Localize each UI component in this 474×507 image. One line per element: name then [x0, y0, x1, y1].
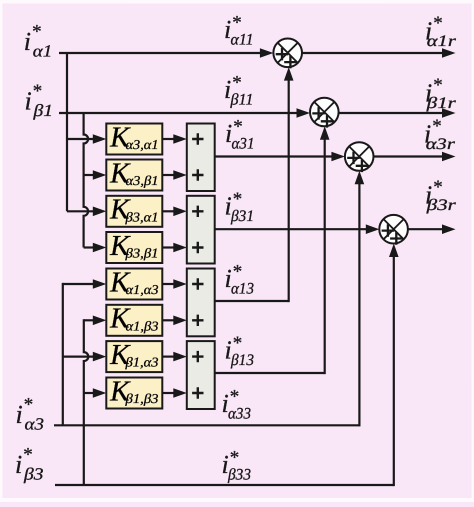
gain block K_β3,α1 (K3): [106, 194, 162, 227]
node label i*_b3r: [425, 177, 457, 214]
wire i*_a3 input line: [54, 424, 359, 426]
svg-text:*: *: [232, 73, 242, 94]
svg-text:*: *: [32, 22, 42, 43]
svg-text:i: i: [15, 450, 22, 479]
adder box A3 (outputs i*_a13): [187, 269, 215, 337]
svg-text:α1,β3: α1,β3: [126, 318, 159, 333]
wire vertical alpha3 feed (x=62.8): [62, 283, 64, 425]
svg-text:*: *: [433, 75, 443, 96]
node label i*_b13: [225, 333, 255, 369]
node label i*_a31: [225, 117, 255, 153]
svg-text:α31: α31: [232, 136, 255, 153]
node label i*_b31: [225, 189, 255, 225]
gain block K_β1,α3 (K7): [106, 339, 162, 372]
svg-text:β33: β33: [227, 466, 251, 483]
svg-text:*: *: [233, 262, 243, 283]
svg-text:β13: β13: [230, 352, 254, 369]
wire i*_a1 input line into summer U1: [59, 52, 261, 54]
wire K block row1 output into adder: [162, 138, 175, 140]
svg-text:*: *: [233, 117, 243, 138]
wire i*_b33 vertical up into summer U4: [393, 256, 395, 487]
svg-text:α11: α11: [231, 31, 254, 48]
wire vertical beta3 feed with jump (x=83.8): [84, 319, 89, 485]
svg-text:*: *: [433, 13, 443, 34]
wire i*_b1r output line with arrow: [339, 112, 444, 114]
svg-text:α13: α13: [231, 281, 254, 298]
wire i*_b3r output line with arrow: [408, 228, 444, 230]
svg-text:β1r: β1r: [425, 95, 456, 112]
svg-text:β1: β1: [32, 101, 53, 120]
wire alpha1 corner into K block row3: [67, 210, 94, 212]
node label i*_a11: [224, 12, 254, 48]
svg-text:α3,β1: α3,β1: [126, 173, 159, 188]
svg-text:β1,α3: β1,α3: [124, 355, 158, 370]
wire alpha1 branch into K block row1: [67, 138, 94, 140]
svg-text:*: *: [24, 395, 34, 416]
svg-text:α1r: α1r: [427, 33, 457, 50]
svg-text:α33: α33: [228, 406, 251, 423]
wire i*_a13 vertical up into summer U1: [288, 79, 290, 302]
svg-text:β1,β3: β1,β3: [124, 391, 158, 406]
node label i*_a1r: [425, 13, 457, 50]
svg-text:β11: β11: [229, 92, 253, 109]
wire vertical beta1 feed with jumps (x=83.6): [84, 113, 89, 248]
node label i*_b33: [222, 447, 252, 483]
svg-text:*: *: [23, 445, 33, 466]
wire i*_a3r output line with arrow: [374, 155, 444, 157]
svg-text:*: *: [230, 387, 240, 408]
wire i*_a33 vertical up into summer U3: [358, 183, 360, 427]
wire i*_a31 line from adder box to summer U3: [215, 155, 333, 157]
gain block K_α1,α3 (K5): [106, 266, 162, 299]
wire K block row3 output into adder: [162, 210, 175, 212]
wire i*_b13 vertical up into summer U2: [324, 138, 326, 374]
wire i*_b3 input line: [55, 484, 394, 486]
node label i*_b3: [15, 445, 44, 484]
wire K block row7 output into adder: [162, 356, 175, 358]
wire vertical alpha1 feed (x=67): [66, 53, 68, 211]
svg-text:*: *: [232, 12, 242, 33]
node label i*_b1r: [425, 75, 457, 112]
node label i*_b1: [25, 81, 54, 120]
gain block K_α3,β1 (K2): [106, 157, 162, 190]
wire beta1 corner into K block row4: [84, 246, 95, 248]
svg-text:*: *: [433, 177, 443, 198]
svg-text:α1: α1: [33, 42, 53, 61]
gain block K_α1,β3 (K6): [106, 303, 162, 336]
wire i*_b1 input line into summer U2: [59, 112, 298, 114]
wire i*_a1r output line with arrow: [302, 52, 444, 54]
svg-text:i: i: [16, 400, 23, 429]
adder box A1 (outputs i*_a31): [187, 124, 215, 192]
adder box A4 (outputs i*_b13): [187, 341, 215, 409]
wire K block row5 output into adder: [162, 283, 175, 285]
gain block K_α3,α1 (K1): [106, 121, 162, 154]
summer U4 (i*_b31 + i*_b33): [379, 215, 408, 245]
svg-text:*: *: [432, 116, 442, 137]
svg-text:*: *: [33, 81, 43, 102]
svg-text:i: i: [24, 27, 31, 56]
summer U1 (i*_a11 + i*_a13): [273, 39, 302, 69]
node label i*_a3r: [424, 116, 456, 153]
svg-text:β3: β3: [23, 465, 44, 484]
summer U2 (i*_b11 + i*_b13): [310, 98, 339, 128]
wire beta3 branch into K block row8: [84, 392, 95, 394]
wire beta1 branch into K block row2: [84, 174, 95, 176]
wire i*_b31 line from adder box to summer U4: [215, 228, 368, 230]
adder box A2 (outputs i*_b31): [187, 196, 215, 264]
wire i*_a13 line from adder box 3: [215, 300, 289, 302]
svg-text:*: *: [233, 333, 243, 354]
wire alpha3 branch into K block row7: [63, 356, 95, 358]
wire alpha3 corner into K block row5: [63, 283, 95, 285]
summer U3 (i*_a31 + i*_a33): [345, 142, 374, 172]
wire K block row6 output into adder: [162, 319, 175, 321]
svg-text:α3: α3: [25, 415, 45, 434]
svg-text:β3,β1: β3,β1: [124, 246, 158, 261]
svg-text:β3,α1: β3,α1: [124, 209, 158, 224]
wire i*_b13 line from adder box 4: [215, 372, 325, 374]
node label i*_a1: [24, 22, 53, 61]
svg-text:*: *: [230, 447, 240, 468]
wire K block row8 output into adder: [162, 392, 175, 394]
svg-text:i: i: [25, 87, 32, 116]
node label i*_b11: [224, 73, 254, 109]
svg-text:α3,α1: α3,α1: [126, 137, 159, 152]
node label i*_a13: [225, 262, 255, 298]
node label i*_a3: [16, 395, 45, 434]
svg-text:α3r: α3r: [426, 136, 456, 153]
svg-text:β31: β31: [230, 208, 254, 225]
wire K block row2 output into adder: [162, 174, 175, 176]
wire K block row4 output into adder: [162, 246, 175, 248]
svg-text:*: *: [233, 189, 243, 210]
wire beta3 corner into K block row6: [84, 319, 95, 321]
gain block K_β3,β1 (K4): [106, 230, 162, 263]
gain block K_β1,β3 (K8): [106, 375, 162, 408]
svg-text:α1,α3: α1,α3: [126, 282, 159, 297]
node label i*_a33: [222, 387, 252, 423]
svg-text:β3r: β3r: [425, 197, 456, 214]
